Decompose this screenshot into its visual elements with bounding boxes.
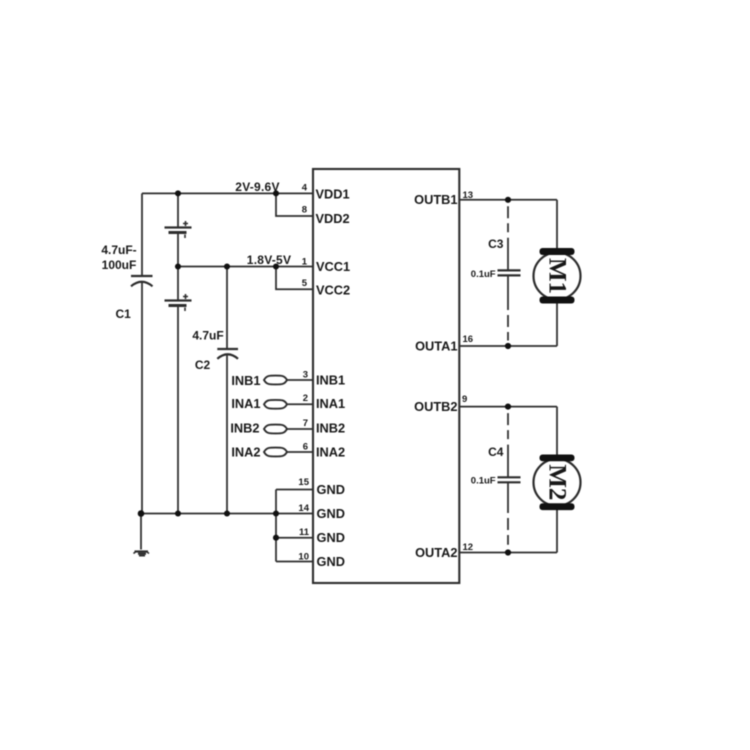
- wire VDD bus (C1 top to pin 4): [142, 192, 313, 194]
- motor M1: [534, 248, 581, 304]
- svg-text:4.7uF: 4.7uF: [192, 329, 223, 343]
- svg-text:7: 7: [303, 418, 308, 429]
- input connector INB1: [264, 376, 313, 385]
- svg-text:INA1: INA1: [231, 396, 260, 411]
- svg-text:4.7uF-: 4.7uF-: [101, 243, 136, 257]
- wire OUTA1 pin 16: [459, 345, 557, 347]
- wire M2 bottom lead: [556, 510, 558, 553]
- svg-text:0.1uF: 0.1uF: [471, 475, 496, 486]
- svg-text:16: 16: [463, 334, 474, 345]
- svg-text:INA2: INA2: [316, 445, 345, 460]
- capacitor C3: [498, 206, 521, 340]
- svg-text:6: 6: [303, 442, 308, 453]
- wire OUTB2 pin 9: [459, 406, 557, 408]
- svg-text:VCC1: VCC1: [316, 259, 350, 274]
- wire M1 bottom lead: [556, 304, 558, 347]
- svg-text:5: 5: [302, 278, 308, 289]
- svg-text:15: 15: [298, 477, 309, 488]
- polarized capacitor pair (battery stack): [165, 193, 192, 513]
- svg-text:INA2: INA2: [231, 445, 260, 460]
- wire OUTB1 pin 13: [459, 199, 557, 201]
- svg-text:4: 4: [302, 183, 308, 194]
- svg-text:1: 1: [302, 257, 308, 268]
- svg-text:INB2: INB2: [230, 421, 259, 436]
- svg-text:OUTA1: OUTA1: [415, 338, 457, 353]
- svg-text:VDD2: VDD2: [316, 211, 350, 226]
- svg-text:C1: C1: [116, 307, 132, 321]
- wire GND pin 11 stub: [276, 537, 313, 539]
- wire VCC bus (battery node to pin 1): [178, 266, 313, 268]
- svg-text:2: 2: [303, 393, 308, 404]
- svg-text:8: 8: [302, 205, 307, 216]
- svg-text:INA1: INA1: [316, 396, 345, 411]
- input connector INA2: [264, 448, 313, 457]
- svg-text:INB1: INB1: [231, 373, 260, 388]
- svg-text:13: 13: [463, 190, 474, 201]
- wire GND pin 15 stub: [276, 489, 313, 491]
- svg-text:3: 3: [303, 370, 308, 381]
- svg-text:GND: GND: [317, 482, 345, 497]
- svg-text:C4: C4: [488, 445, 504, 459]
- wire GND pin 10 stub: [276, 561, 313, 563]
- svg-text:M2: M2: [544, 464, 571, 500]
- svg-text:11: 11: [299, 527, 310, 538]
- capacitor C4: [498, 413, 521, 545]
- svg-text:VCC2: VCC2: [316, 283, 350, 298]
- svg-text:14: 14: [298, 503, 309, 514]
- svg-text:12: 12: [463, 542, 474, 553]
- svg-text:OUTB2: OUTB2: [414, 399, 457, 414]
- IC U1 body: [313, 169, 459, 583]
- wire OUTA2 pin 12: [459, 552, 557, 554]
- plus marks: [183, 221, 188, 226]
- wire VCC branch to pin 5: [276, 267, 313, 290]
- svg-text:0.1uF: 0.1uF: [471, 269, 496, 280]
- svg-text:9: 9: [462, 394, 467, 405]
- motor M2: [534, 455, 581, 511]
- svg-text:M1: M1: [544, 258, 571, 294]
- wire VDD branch to pin 8: [276, 193, 313, 216]
- junction dots: [138, 190, 511, 555]
- svg-text:INB2: INB2: [316, 421, 345, 436]
- svg-text:INB1: INB1: [316, 373, 345, 388]
- GND pin ladder wire: [275, 490, 277, 562]
- svg-text:VDD1: VDD1: [316, 187, 350, 202]
- wire M2 top lead: [556, 407, 558, 455]
- ground bus wire: [141, 513, 313, 515]
- ground symbol: [134, 552, 150, 556]
- svg-text:OUTA2: OUTA2: [415, 545, 457, 560]
- svg-text:100uF: 100uF: [102, 258, 137, 272]
- svg-text:10: 10: [298, 552, 309, 563]
- wire M1 top lead: [556, 200, 558, 248]
- svg-text:C2: C2: [195, 358, 211, 372]
- svg-text:C3: C3: [488, 237, 504, 251]
- svg-text:GND: GND: [317, 530, 345, 545]
- input connector INA1: [264, 400, 313, 409]
- svg-text:OUTB1: OUTB1: [414, 192, 457, 207]
- input connector INB2: [264, 425, 313, 434]
- wire ground drop: [140, 514, 142, 550]
- svg-text:2V-9.6V: 2V-9.6V: [235, 180, 279, 194]
- svg-text:1.8V-5V: 1.8V-5V: [247, 253, 291, 267]
- svg-text:GND: GND: [317, 506, 345, 521]
- svg-text:GND: GND: [317, 554, 345, 569]
- capacitor C2: [217, 267, 238, 514]
- capacitor C1: [131, 193, 153, 513]
